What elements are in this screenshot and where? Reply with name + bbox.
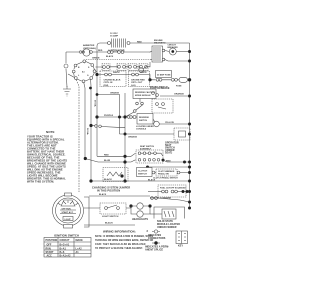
key right bracket [84,197,89,227]
wire dashed y59.5 [84,60,150,64]
connector splice left [64,64,68,68]
wire y181 [91,180,190,182]
svg-text:OFF RUN: OFF RUN [62,209,72,211]
contacts cluster [162,190,178,193]
dashed box y172 [156,169,177,176]
node y167 bus [188,166,191,169]
label note2 index [147,229,149,233]
engine coil box T1 [152,46,165,62]
legend splice text [145,246,169,252]
label y90 [150,87,170,90]
svg-text:HEADLIGHTS: HEADLIGHTS [132,218,148,221]
key bottom tab [64,225,73,229]
wire plug stub [143,66,147,69]
svg-text:BLUE: BLUE [104,160,111,162]
label key face words [62,209,74,221]
wire mid to x125 [93,126,126,128]
svg-text:PURPLE: PURPLE [104,115,114,117]
label y181 wire [104,178,112,181]
svg-text:RED: RED [98,50,103,52]
label stator value [110,33,119,38]
fuse F1 [179,77,188,82]
label battery [157,220,180,229]
contact pair row y67 a [102,64,110,71]
svg-text:12 VDC: 12 VDC [110,33,118,35]
wire stator to right bus [130,42,190,44]
wire x125 vertical [124,93,126,181]
node coil [120,174,123,177]
label wire red small [98,50,103,52]
label switch terminals [78,67,90,77]
svg-text:CRTL OUT: CRTL OUT [131,82,143,84]
label seat switch [165,142,179,155]
svg-text:SOLID STATE: SOLID STATE [157,220,173,223]
label y223 [105,222,113,225]
svg-text:POSITION: POSITION [46,239,58,242]
switch symbol below box [136,105,143,111]
wire ring to bus x97 [96,71,97,74]
svg-text:LIGHT SWITCH: LIGHT SWITCH [102,216,119,218]
label stator name [108,50,125,53]
wire cluster to bus [178,191,190,193]
svg-text:SEAT): SEAT) [165,152,172,155]
mid box y114 [137,114,153,125]
svg-text:RED: RED [166,161,171,163]
contact y117 [127,116,136,119]
svg-text:YELLOW: YELLOW [165,122,174,124]
label headlights [132,218,148,221]
label ammeter [83,44,96,50]
svg-text:GROUND TO ENGINE: GROUND TO ENGINE [150,198,172,200]
svg-text:WIRING INFORMATION:: WIRING INFORMATION: [103,230,136,234]
node y117 b [118,116,121,119]
node headlight right [148,204,151,207]
label seat box [140,145,155,150]
ground symbol [63,86,71,96]
contact pair row y67 c [128,64,137,71]
contacts y172 [152,171,180,174]
svg-text:LIGHT: LIGHT [65,219,72,221]
node y117 c [123,115,126,118]
label connector pair b [106,55,114,58]
label brake switch [150,86,168,89]
wire y94 interlock [97,95,120,135]
wire coil right bottom to bus [165,60,190,62]
label wire gauge vertical 2 [86,128,89,136]
label y134 [128,136,138,139]
dashed box clutch [152,99,173,113]
note1 heading [46,130,55,134]
note1 paragraph [27,135,67,184]
connector pair mid [95,125,102,128]
label small box [138,171,148,176]
note2 heading [103,230,136,234]
svg-text:INDICATES A PERM-: INDICATES A PERM- [145,246,169,249]
right bus wire [189,43,191,209]
node splice x90 [89,87,92,90]
coil zigzag inside [107,172,122,176]
label y181 right [148,178,156,181]
svg-text:RED: RED [137,42,142,44]
svg-text:RED: RED [104,154,109,156]
label interlock box [135,91,155,97]
table title [54,234,79,238]
node y75 left [95,73,98,76]
label inside dashed y172 [158,170,175,176]
svg-text:CLUTCH: CLUTCH [138,171,148,173]
svg-text:OFF: OFF [47,243,52,246]
dashed box right mid [174,128,190,140]
label mid box [139,117,149,122]
node y167 left [146,166,149,169]
label y96 wire [174,93,184,96]
label light switch [102,216,119,218]
svg-text:B+G+A1: B+G+A1 [60,243,70,246]
label y124 [165,122,174,124]
wire y134 [120,133,175,135]
interlock box [133,89,156,99]
svg-text:(RH): (RH) [104,85,109,87]
wire contacts row y67 [96,62,151,67]
label breaker [168,45,179,49]
svg-text:CRUISE RED: CRUISE RED [131,80,145,82]
label y163 wire [166,161,171,163]
connector pair a row y52 [108,51,114,54]
node cluster right [182,190,185,193]
svg-text:B+A1+A2: B+A1+A2 [60,255,72,258]
node y162 a [84,157,87,160]
wire y124 to bus [159,123,189,125]
contacts y198 [151,197,158,200]
svg-text:KEY: KEY [178,245,183,248]
contacts seat row2 [138,159,160,162]
wire diag to switch [68,74,75,78]
wire y162 to bus [163,160,190,162]
headlight L1 [137,203,143,209]
wire y156 [97,153,136,156]
svg-text:REVERSE: REVERSE [139,117,149,119]
svg-text:(LH): (LH) [131,85,136,87]
node y79.8 mid [148,78,151,81]
node y162 pre-bus [183,161,186,164]
contacts y93 [152,92,159,97]
wire box drop [139,99,141,103]
legend connector symbol [152,230,160,233]
svg-text:B+S: B+S [60,251,65,254]
contacts below interlock [136,102,144,105]
label relay A [104,79,121,87]
wire seat row1 [141,153,163,156]
wire dashed corner down [150,59,152,61]
svg-text:INDICATES: INDICATES [148,234,161,237]
label dashed wire green [92,58,100,60]
label pair y67 b [113,72,120,74]
fuse holder box [156,71,172,78]
wire y162 [85,159,136,163]
node y156 [123,155,126,158]
svg-text:WHITE: WHITE [140,72,147,74]
battery box BT1 [162,209,176,219]
svg-text:CIRCUIT: CIRCUIT [60,239,71,242]
circuit breaker CB1 [169,48,176,55]
table cell text [46,239,84,258]
key face outer circle [53,195,84,226]
relay dashed box B [129,71,150,87]
label pair y67 d [140,72,147,74]
svg-text:IGNITION SWITCH: IGNITION SWITCH [54,234,79,238]
node y134 x125 [124,133,127,136]
wire y198 to bus [158,198,190,202]
svg-text:FUEL CUTOFF SOLENOID: FUEL CUTOFF SOLENOID [160,188,186,190]
small box left y168 [137,168,153,177]
svg-text:NOTE: NOTE [46,130,55,134]
svg-text:SWITCH: SWITCH [138,174,147,176]
svg-text:WHITE: WHITE [113,72,120,74]
node bus junctions [188,50,191,210]
wire to x125 [126,112,134,117]
contacts seat row1 [138,152,156,155]
note2 paragraph [95,235,153,250]
connector circle right of ammeter [89,51,92,54]
battery bracket outline [154,207,185,219]
wire battery left [150,213,162,215]
contact pair row y67 d [139,64,148,71]
node y208 [129,204,132,207]
label y194 [99,193,107,196]
wire coil right top to breaker [165,51,169,52]
label under mid box [136,125,154,131]
key inner detail [58,200,78,221]
svg-text:B+A1: B+A1 [60,247,67,250]
stator M1 coil hatching [108,39,131,48]
node y94 [96,93,99,96]
dashed coil box mid [103,168,128,182]
node y117 a [95,115,98,118]
label fuse [176,86,182,88]
label y172 row [153,177,178,180]
engine coil label [154,40,166,45]
wire switch drop x79 [76,80,79,193]
wire switch drop x85 [84,83,85,158]
small rect inside [179,131,186,137]
wire y196 [89,195,150,197]
contacts clutch inside [156,103,166,109]
connector pair left of ammeter [79,51,84,53]
svg-text:ACC: ACC [47,255,53,258]
wire y117 [97,116,137,118]
label y158 wire [104,160,111,162]
table ignition switch [44,238,91,258]
ammeter M2 [83,49,90,56]
wire switch drop x91 [90,80,92,182]
label wire gauge vertical [94,100,97,108]
wires headlights [131,206,150,214]
label y117 wire [104,115,114,117]
svg-text:MAKE: MAKE [76,239,84,242]
contact pair row y67 b [117,64,126,71]
switch inside [105,205,120,209]
svg-text:L+A2: L+A2 [76,247,83,250]
dashed light switch box [100,203,126,214]
seat switch dashed box [136,150,163,163]
label wire red top [137,42,142,44]
label key [178,245,183,248]
wire breaker to bus [176,51,189,53]
wire y172 row [148,172,190,174]
svg-text:CONNECTORS: CONNECTORS [148,237,166,240]
wire left drop to ground [66,52,67,87]
svg-text:MODE MODULE: MODE MODULE [135,95,151,97]
wire contacts row y75 [97,75,190,80]
contact circles row y75 [105,73,178,81]
node y181 a [89,179,92,182]
label relay B [131,80,145,87]
wire cluster left [148,191,162,193]
headlight L2 [137,211,143,217]
svg-text:MODULE LOCATED: MODULE LOCATED [157,223,180,226]
svg-text:CIRCUIT: CIRCUIT [168,45,177,47]
key top tab [65,193,72,196]
label cluster bottom [150,198,172,200]
label y147 wire [104,154,109,156]
wire y225 [84,224,135,226]
connector pair b row y52 [118,51,124,54]
wire bus x97 [96,54,98,156]
label fuse holder [157,73,171,76]
ignition switch S1 terminal ring [72,60,96,83]
wire y167 [148,166,190,168]
label cluster top [160,188,186,190]
label y94 wire [110,92,120,95]
node pre-bus y190 [186,190,189,193]
node y162 b [123,160,126,163]
legend splice symbol [152,241,160,244]
svg-text:ENGINE: ENGINE [154,40,163,42]
wire top charging loop [97,43,108,54]
wire y208 [84,207,131,209]
node seat out [162,159,165,162]
svg-text:UNDER FENDER: UNDER FENDER [157,226,177,229]
spark plug P1 [139,68,144,73]
wire ammeter row y52 [66,51,150,54]
node mid squiggle [89,124,92,127]
svg-text:ANENT SPLICE: ANENT SPLICE [145,249,163,252]
dashed cluster bottom [158,185,186,197]
wire y96 right [160,95,190,97]
relay dashed box A [100,71,126,87]
svg-text:CRTL IN: CRTL IN [104,82,113,84]
node y181 b [123,179,126,182]
svg-text:START: START [46,251,55,254]
key face inner circle [56,198,81,223]
svg-text:RUN: RUN [46,247,52,250]
svg-text:CONSOLE: CONSOLE [136,129,147,131]
wire coil left top [150,51,152,52]
svg-text:FUSE: FUSE [176,86,182,88]
svg-text:SWITCH: SWITCH [139,120,148,122]
caption charging system [92,186,130,193]
legend connector text [148,234,166,240]
connector key box [176,231,188,244]
seat circle component [153,119,159,127]
